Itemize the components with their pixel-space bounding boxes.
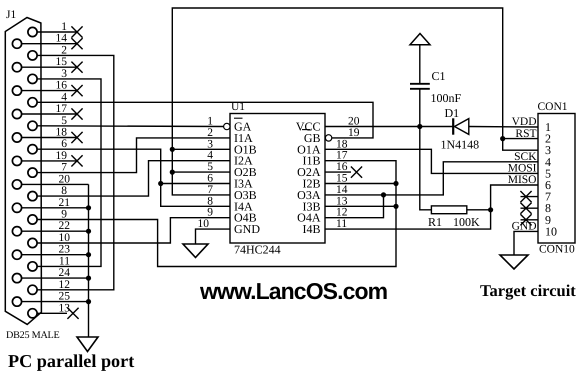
wire D5: J1 pin 7 to U1 I1A: [37, 138, 230, 173]
junction I3A branch: [158, 181, 163, 186]
resistor R1: [431, 206, 466, 214]
U1 pin 17 number: [336, 150, 348, 162]
svg-text:1: 1: [61, 21, 67, 33]
junction pin 22 / ground bus: [86, 229, 91, 234]
J1 pin 22 wire to ground bus: [22, 230, 89, 232]
junction O1B / RST bus: [170, 147, 175, 152]
U1 label I4A: [234, 199, 253, 213]
wire MISO: CON1 pin 6 to I4B: [325, 185, 538, 229]
wire D4: J1 pin 6 to U1 I3A/I4A: [37, 149, 230, 206]
wire MOSI: O1A to CON1 pin 5: [325, 149, 538, 173]
wire D1: J1 pin 3 to pin 11 loopback: [37, 79, 101, 267]
pin 17 label: [56, 103, 68, 115]
svg-text:5: 5: [207, 161, 213, 173]
U1 pin 12 number: [336, 207, 348, 219]
wire D7: J1 pin 9 to U1 I1B/I2B/I3B (under IC): [37, 161, 396, 267]
svg-text:12: 12: [336, 207, 348, 219]
caption PC parallel port: [8, 351, 134, 371]
J1 pin 22 circle: [12, 227, 21, 236]
wire R1 right lead: [467, 209, 491, 211]
pin 13 label: [59, 302, 71, 314]
svg-text:PC parallel port: PC parallel port: [8, 351, 134, 371]
pin 10 label: [59, 232, 71, 244]
svg-text:25: 25: [59, 291, 71, 303]
U1 pin 6 number: [207, 173, 213, 185]
wire I3B branch: [325, 205, 396, 207]
wire O2A stub (n.c.): [325, 167, 362, 178]
J1 pin 12 circle: [28, 285, 37, 294]
U1 label VCC: [296, 120, 321, 134]
U1 pin 13 number: [336, 195, 348, 207]
svg-text:DB25 MALE: DB25 MALE: [6, 330, 60, 341]
svg-text:12: 12: [59, 279, 71, 291]
label SCK: [514, 151, 537, 163]
svg-text:17: 17: [336, 150, 348, 162]
J1 pin 5 circle: [28, 121, 37, 130]
J1 pin 14 circle: [12, 39, 21, 48]
J1 pin 17 wire (n.c.): [22, 108, 83, 119]
U1 label O3A: [297, 188, 321, 202]
svg-text:13: 13: [336, 195, 348, 207]
wire I2B branch: [325, 183, 396, 185]
CON1 pin 9 number: [545, 213, 551, 227]
J1 pin 19 circle: [12, 156, 21, 165]
svg-text:RST: RST: [515, 128, 536, 140]
J1 pin 19 wire (n.c.): [22, 155, 83, 166]
wire D3: J1 pin 5 to U1 GA: [37, 125, 224, 128]
U1 pin 14 number: [336, 184, 348, 196]
pin 2 label: [61, 44, 67, 56]
svg-text:1N4148: 1N4148: [441, 138, 480, 152]
label CON1: [538, 101, 568, 113]
svg-text:10: 10: [59, 232, 71, 244]
U1 pin 1 number: [207, 116, 213, 128]
U1 label I1A: [234, 131, 253, 145]
wire D0: J1 pin 2 to pin 12 loopback: [37, 55, 114, 289]
J1 pin 15 wire (n.c.): [22, 62, 83, 73]
pin 22 label: [59, 220, 71, 232]
svg-text:GND: GND: [234, 222, 260, 236]
CON1 pin 6 number: [545, 178, 551, 192]
J1 pin 18 circle: [12, 133, 21, 142]
caption Target circuit: [480, 281, 576, 300]
svg-text:R1: R1: [428, 215, 442, 229]
svg-text:4: 4: [207, 150, 213, 162]
pin 21 label: [59, 197, 71, 209]
junction O2B / RST bus: [170, 170, 175, 175]
U1 label I2B: [303, 177, 321, 191]
J1 pin 7 circle: [28, 168, 37, 177]
svg-text:74HC244: 74HC244: [234, 243, 281, 257]
U1 pin 19 bubble (GB): [325, 135, 331, 141]
label VDD: [512, 116, 537, 128]
label J1: [6, 9, 16, 21]
svg-text:3: 3: [61, 68, 67, 80]
junction VCC / C1: [417, 124, 422, 129]
svg-text:16: 16: [56, 80, 68, 92]
U1 label O2A: [297, 165, 321, 179]
CON1 pin 2 number: [545, 132, 551, 146]
J1 pin 14 wire (n.c.): [22, 38, 83, 49]
CON1 pin 9 stub (n.c.): [520, 214, 538, 225]
J1 pin 8 circle: [28, 192, 37, 201]
svg-text:J1: J1: [6, 9, 16, 21]
svg-text:www.LancOS.com: www.LancOS.com: [199, 278, 388, 304]
label 1N4148: [441, 138, 480, 152]
svg-text:19: 19: [348, 127, 360, 139]
J1 pin 20 wire to ground bus: [22, 183, 89, 185]
svg-text:20: 20: [59, 173, 71, 185]
J1 pin 2 circle: [28, 51, 37, 60]
CON1 pin 3 number: [545, 143, 551, 157]
svg-text:11: 11: [336, 218, 347, 230]
wire O4A branch: [325, 195, 384, 218]
J1 pin 4 circle: [28, 98, 37, 107]
U1 pin 15 number: [336, 173, 348, 185]
overbar on G of GB: [302, 129, 311, 131]
J1 pin 23 wire to ground bus: [22, 254, 89, 256]
wire D1 to CON1 VDD: [469, 126, 538, 129]
svg-text:MISO: MISO: [508, 174, 537, 186]
label DB25 MALE: [6, 330, 60, 341]
svg-text:U1: U1: [231, 101, 245, 113]
svg-text:19: 19: [56, 150, 68, 162]
label U1: [231, 101, 245, 113]
U1 pin 20 number: [348, 116, 360, 128]
pin 5 label: [61, 115, 67, 127]
svg-text:10: 10: [545, 224, 557, 238]
junction O3A / O4A: [381, 192, 386, 197]
U1 label I3A: [234, 177, 253, 191]
svg-text:4: 4: [61, 91, 67, 103]
wire O1B branch: [172, 148, 230, 150]
ground symbol (U1): [183, 244, 208, 258]
J1 pin 6 circle: [28, 145, 37, 154]
J1 pin 16 circle: [12, 86, 21, 95]
svg-text:17: 17: [56, 103, 68, 115]
U1 pin 10 number: [198, 218, 210, 230]
svg-text:Target circuit: Target circuit: [480, 281, 576, 300]
ground bus wire: [88, 184, 90, 337]
junction pin 23 / ground bus: [86, 252, 91, 257]
U1 pin 19 number: [348, 127, 360, 139]
svg-text:9: 9: [207, 207, 213, 219]
svg-text:18: 18: [336, 138, 348, 150]
svg-text:6: 6: [61, 138, 67, 150]
U1 pin 5 number: [207, 161, 213, 173]
J1 pin 16 wire (n.c.): [22, 85, 83, 96]
overbar on G of GA: [234, 117, 243, 119]
J1 pin 23 circle: [12, 250, 21, 259]
U1 pin 16 number: [336, 161, 348, 173]
svg-text:8: 8: [61, 185, 67, 197]
svg-text:9: 9: [61, 209, 67, 221]
svg-text:10: 10: [198, 218, 210, 230]
ground symbol (parallel port): [77, 337, 98, 352]
U1 label GB: [304, 131, 321, 145]
CON1 pin 7 number: [545, 190, 551, 204]
U1 pin 2 number: [207, 127, 213, 139]
J1 pin 1 circle: [28, 27, 37, 36]
wire C1 to rail to R1: [420, 90, 432, 210]
label R1: [428, 215, 442, 229]
U1 pin 7 number: [207, 184, 213, 196]
J1 pin 24 wire to ground bus: [22, 277, 89, 279]
junction I2B: [393, 181, 398, 186]
svg-text:5: 5: [61, 115, 67, 127]
svg-text:100K: 100K: [453, 215, 480, 229]
svg-text:15: 15: [336, 173, 348, 185]
pin 16 label: [56, 80, 68, 92]
label MOSI: [508, 163, 537, 175]
wire VCC rail: [325, 126, 453, 128]
label MISO: [508, 174, 537, 186]
pin 8 label: [61, 185, 67, 197]
J1 pin 9 circle: [28, 215, 37, 224]
pin 24 label: [59, 267, 71, 279]
U1 label O4A: [297, 211, 321, 225]
pin 6 label: [61, 138, 67, 150]
wire CON1 pin 10 to ground: [514, 231, 538, 255]
junction RST: [500, 136, 505, 141]
CON1 pin 1 number: [545, 120, 551, 134]
wire VCC arrow to C1: [419, 45, 421, 83]
junction I3B: [393, 204, 398, 209]
wire ACK: U1 O4B to J1 pin 10: [37, 218, 230, 243]
svg-text:7: 7: [61, 162, 67, 174]
U1 label O1B: [234, 142, 257, 156]
svg-text:D1: D1: [445, 106, 460, 120]
svg-text:2: 2: [61, 44, 67, 56]
J1 pin 3 circle: [28, 74, 37, 83]
svg-text:I4B: I4B: [303, 222, 321, 236]
svg-text:24: 24: [59, 267, 71, 279]
svg-text:2: 2: [207, 127, 213, 139]
pin 4 label: [61, 91, 67, 103]
U1 pin 8 number: [207, 195, 213, 207]
label 100nF: [431, 91, 462, 105]
U1 label I1B: [303, 154, 321, 168]
svg-text:6: 6: [207, 173, 213, 185]
svg-text:1: 1: [207, 116, 213, 128]
svg-text:CON1: CON1: [538, 101, 568, 113]
label CON10: [539, 244, 575, 256]
J1 pin 13 wire (n.c.): [37, 308, 79, 319]
svg-text:14: 14: [56, 33, 68, 45]
J1 pin 21 wire to ground bus: [22, 207, 89, 209]
wire GND: U1 pin 10 to ground: [196, 229, 231, 244]
pin 25 label: [59, 291, 71, 303]
label D1: [445, 106, 460, 120]
pin 15 label: [56, 56, 68, 68]
J1 pin 25 wire to ground bus: [22, 301, 89, 303]
op-amp U1 74HC244 body: [230, 114, 325, 244]
J1 pin 11 circle: [28, 262, 37, 271]
svg-text:8: 8: [207, 195, 213, 207]
CON1 pin 8 stub (n.c.): [520, 203, 538, 214]
svg-text:SCK: SCK: [514, 151, 537, 163]
wire D6: J1 pin 8 to U1 I2A: [37, 161, 230, 196]
wire SCK: O3A to CON1 pin 4: [325, 162, 538, 195]
U1 label GA: [234, 120, 252, 134]
label GND: [512, 221, 537, 233]
pin 23 label: [59, 244, 71, 256]
svg-text:22: 22: [59, 220, 71, 232]
svg-text:11: 11: [59, 255, 70, 267]
wire O2B branch: [172, 171, 230, 173]
power VCC arrow: [410, 34, 430, 45]
wire I3A branch: [161, 183, 230, 185]
svg-text:16: 16: [336, 161, 348, 173]
U1 label I3B: [303, 199, 321, 213]
U1 pin 9 number: [207, 207, 213, 219]
svg-text:C1: C1: [432, 69, 446, 83]
U1 label O2B: [234, 165, 257, 179]
svg-text:21: 21: [59, 197, 71, 209]
U1 pin 1 bubble (GA): [224, 123, 230, 129]
wire RST net: O3B up and over the top to CON1: [172, 8, 538, 195]
junction pin 24 / ground bus: [86, 276, 91, 281]
svg-text:14: 14: [336, 184, 348, 196]
pin 19 label: [56, 150, 68, 162]
U1 pin 4 number: [207, 150, 213, 162]
capacitor C1: [410, 84, 430, 89]
U1 pin 18 number: [336, 138, 348, 150]
pin 3 label: [61, 68, 67, 80]
U1 label GND: [234, 222, 260, 236]
label RST: [515, 128, 536, 140]
diode D1 1N4148: [453, 118, 469, 134]
junction pin 21 / ground bus: [86, 205, 91, 210]
svg-text:VDD: VDD: [512, 116, 537, 128]
pin 14 label: [56, 33, 68, 45]
J1 pin 20 circle: [12, 180, 21, 189]
J1 pin 18 wire (n.c.): [22, 132, 83, 143]
CON1 pin 10 number: [545, 224, 557, 238]
svg-text:MOSI: MOSI: [508, 163, 537, 175]
U1 label I4B: [303, 222, 321, 236]
CON1 pin 4 number: [545, 155, 551, 169]
pin 7 label: [61, 162, 67, 174]
U1 label O3B: [234, 188, 257, 202]
U1 label I2A: [234, 154, 253, 168]
svg-text:23: 23: [59, 244, 71, 256]
svg-text:18: 18: [56, 127, 68, 139]
J1 pin 15 circle: [12, 63, 21, 72]
J1 pin 24 circle: [12, 274, 21, 283]
pin 20 label: [59, 173, 71, 185]
CON1 pin 8 number: [545, 201, 551, 215]
pin 11 label: [59, 255, 70, 267]
J1 pin 10 circle: [28, 238, 37, 247]
connector J1 DB25 shell: [5, 18, 41, 325]
pin 9 label: [61, 209, 67, 221]
ground symbol (target): [500, 255, 528, 269]
pin 12 label: [59, 279, 71, 291]
label C1: [432, 69, 446, 83]
U1 pin 3 number: [207, 138, 213, 150]
J1 pin 13 circle: [28, 309, 37, 318]
svg-text:100nF: 100nF: [431, 91, 462, 105]
svg-text:15: 15: [56, 56, 68, 68]
connector CON1 body: [538, 114, 575, 244]
J1 pin 1 wire (n.c.): [37, 26, 83, 37]
J1 pin 17 circle: [12, 109, 21, 118]
svg-text:13: 13: [59, 302, 71, 314]
CON1 pin 7 stub (n.c.): [520, 191, 538, 202]
label 100K: [453, 215, 480, 229]
svg-text:CON10: CON10: [539, 244, 575, 256]
svg-text:3: 3: [207, 138, 213, 150]
wire RST to CON1 pin 2: [503, 138, 538, 140]
pin 1 label: [61, 21, 67, 33]
U1 pin 11 number: [336, 218, 347, 230]
junction pin 25 / ground bus: [86, 299, 91, 304]
U1 label O4B: [234, 211, 257, 225]
J1 pin 21 circle: [12, 203, 21, 212]
wire D2: J1 pin 4 to U1 GB (over the top): [37, 102, 373, 138]
svg-text:20: 20: [348, 116, 360, 128]
junction MISO / R1: [488, 207, 493, 212]
pin 18 label: [56, 127, 68, 139]
label 74HC244: [234, 243, 281, 257]
CON1 pin 5 number: [545, 166, 551, 180]
U1 label O1A: [297, 142, 321, 156]
J1 pin 25 circle: [12, 297, 21, 306]
caption www.LancOS.com: [199, 278, 388, 304]
svg-text:7: 7: [207, 184, 213, 196]
